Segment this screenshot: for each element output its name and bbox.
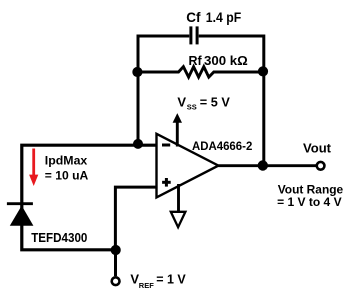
photodiode TEFD4300 cathode bar <box>7 202 33 205</box>
svg-text:300 kΩ: 300 kΩ <box>204 53 248 68</box>
svg-text:= 1 V: = 1 V <box>156 272 186 287</box>
svg-text:Vout: Vout <box>303 140 332 155</box>
op-amp minus sign <box>162 144 170 147</box>
svg-text:= 1 V to 4 V: = 1 V to 4 V <box>277 195 342 209</box>
wire horizontal to inverting input, photodiode branch, bottom horizontal <box>22 145 157 250</box>
svg-text:ADA4666-2: ADA4666-2 <box>192 139 253 153</box>
svg-text:IpdMax: IpdMax <box>45 154 88 168</box>
svg-text:V: V <box>177 95 186 110</box>
wire inverting rail vertical <box>137 72 140 145</box>
Vss supply arrow <box>173 113 182 146</box>
svg-text:Rf: Rf <box>189 54 203 68</box>
junction dot right Rf <box>258 66 268 76</box>
wire to non-inverting input <box>115 187 157 250</box>
label Vss = 5 V <box>177 95 230 112</box>
junction dot left Rf <box>132 67 142 77</box>
svg-text:Cf: Cf <box>186 10 201 25</box>
svg-text:REF: REF <box>139 281 154 290</box>
svg-text:1.4 pF: 1.4 pF <box>206 10 241 25</box>
terminal Vout open circle <box>317 162 325 170</box>
wire stub to Vref terminal <box>114 250 117 276</box>
photodiode TEFD4300 triangle <box>10 206 34 226</box>
svg-text:TEFD4300: TEFD4300 <box>31 231 87 245</box>
op-amp U1 triangle <box>157 134 219 198</box>
wire output <box>218 164 316 167</box>
resistor Rf with wire <box>138 67 264 77</box>
wire feedback top loop right segment <box>199 36 264 74</box>
junction dot output node <box>258 160 268 170</box>
wire feedback top loop left segment <box>138 36 189 74</box>
svg-text:= 10 uA: = 10 uA <box>45 168 89 182</box>
svg-text:= 5 V: = 5 V <box>200 95 230 110</box>
wire feedback right vertical <box>262 72 265 166</box>
red arrow IpdMax <box>29 149 38 187</box>
junction dot inverting node <box>133 139 143 149</box>
op-amp plus sign <box>162 178 171 187</box>
junction dot Vref node <box>111 245 121 255</box>
capacitor Cf plates <box>191 26 197 44</box>
label Vref = 1 V <box>130 272 186 290</box>
negative supply down arrow <box>171 184 186 227</box>
terminal Vref open circle <box>112 277 120 285</box>
svg-text:SS: SS <box>187 102 197 111</box>
